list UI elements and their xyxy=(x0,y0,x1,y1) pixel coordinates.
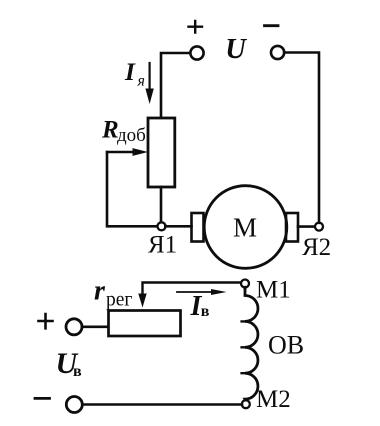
wire from Rдоб bottom to node Я1 xyxy=(160,187,163,222)
wire from node Я2 up to − terminal xyxy=(284,53,319,223)
svg-text:I: I xyxy=(124,57,136,86)
svg-text:в: в xyxy=(201,303,210,320)
current arrow Iв xyxy=(177,289,227,295)
svg-text:Я2: Я2 xyxy=(302,234,331,261)
motor armature M xyxy=(204,186,287,269)
terminal − of field supply Uв xyxy=(35,397,82,413)
wire node M2 to − terminal xyxy=(82,403,242,406)
brush right xyxy=(286,213,298,242)
terminal − of armature supply U xyxy=(265,26,285,59)
label Iв xyxy=(190,291,210,322)
label Iя xyxy=(124,57,145,90)
node M2 xyxy=(242,400,250,408)
current arrow Iя xyxy=(145,63,153,104)
svg-text:М2: М2 xyxy=(256,386,291,413)
label Rдоб xyxy=(101,117,146,147)
node M1 xyxy=(241,280,249,288)
svg-text:я: я xyxy=(137,73,145,90)
wire + terminal to rheostat rрег xyxy=(82,325,109,328)
svg-text:ОВ: ОВ xyxy=(268,331,304,360)
wire from + terminal to Rдоб top xyxy=(161,53,190,118)
wiper arrow of Rдоб xyxy=(107,148,148,156)
wire from wiper down and right to node Я1 xyxy=(107,152,161,226)
svg-text:r: r xyxy=(94,276,106,307)
label rрег xyxy=(94,276,132,311)
svg-text:в: в xyxy=(73,363,82,380)
wire node Я1 to left brush xyxy=(165,225,191,228)
brush left xyxy=(192,213,204,242)
svg-text:Я1: Я1 xyxy=(148,232,177,259)
terminal + of armature supply U xyxy=(189,21,204,60)
wiper arrow of rрег and wire to node M1 xyxy=(138,283,241,308)
svg-text:рег: рег xyxy=(106,290,132,311)
resistor Rдоб xyxy=(148,118,175,187)
terminal + of field supply Uв xyxy=(39,314,83,335)
svg-text:М1: М1 xyxy=(256,277,291,304)
label Uв xyxy=(56,347,83,380)
rheostat rрег xyxy=(109,311,181,337)
node Я1 xyxy=(158,222,166,230)
svg-text:М: М xyxy=(233,213,257,243)
wire right brush to node Я2 xyxy=(298,225,315,228)
node Я2 xyxy=(315,223,323,231)
inductor OB field winding xyxy=(242,287,258,400)
svg-text:U: U xyxy=(225,34,247,65)
svg-text:доб: доб xyxy=(117,125,146,146)
